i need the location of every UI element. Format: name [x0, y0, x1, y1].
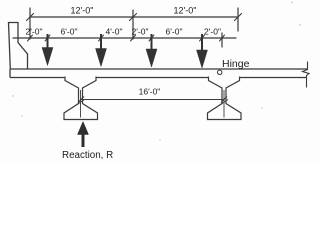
- svg-text:6'-0": 6'-0": [166, 27, 183, 37]
- girder G1 centerline: [80, 90, 82, 118]
- beam top edge: [10, 68, 308, 70]
- beam right break symbol: [303, 62, 310, 88]
- tick level2 x47.5: [45, 35, 50, 41]
- load arrow P3 head: [146, 49, 157, 67]
- svg-text:12'-0": 12'-0": [174, 6, 197, 16]
- extension line right x238: [237, 8, 239, 31]
- svg-text:6'-0": 6'-0": [61, 27, 78, 37]
- svg-text:Reaction, R: Reaction, R: [62, 150, 113, 161]
- tick level1 left: [27, 14, 34, 21]
- dimension line level2: [13, 37, 236, 39]
- hinge symbol circle: [218, 70, 222, 74]
- tick level2 x151.5: [149, 35, 154, 41]
- reaction arrow head: [78, 122, 89, 135]
- tick level1 middle: [130, 14, 137, 21]
- load arrow P2 shaft: [100, 34, 102, 50]
- tick level2 x30: [28, 35, 33, 41]
- girder G2 web break: [221, 100, 229, 105]
- dimension line 16 ft: [81, 99, 224, 101]
- load arrow P4 shaft: [201, 34, 203, 51]
- dimension line level1: [30, 16, 238, 18]
- load arrow P2 head: [96, 49, 107, 67]
- tick level2 x222: [220, 35, 225, 41]
- girder G2 cross-section: [208, 77, 242, 120]
- load arrow P4 head: [197, 50, 208, 68]
- load arrow P3 shaft: [151, 34, 153, 51]
- svg-text:2'-0": 2'-0": [132, 27, 149, 37]
- left end wall outline: [9, 23, 28, 70]
- svg-text:16'-0": 16'-0": [139, 87, 161, 97]
- girder G1 cross-section: [64, 77, 98, 120]
- load arrow P1 head: [42, 48, 53, 66]
- svg-text:12'-0": 12'-0": [71, 6, 94, 16]
- girder G2 centerline: [223, 90, 225, 118]
- tick 16ft left: [78, 97, 84, 103]
- beam left end cap: [9, 69, 11, 78]
- extension line hinge x222: [221, 33, 223, 47]
- beam bottom edge: [10, 77, 307, 79]
- tick 16ft right: [221, 97, 227, 103]
- tick level2 x101: [99, 35, 104, 41]
- svg-text:2'-0": 2'-0": [204, 27, 221, 37]
- girder G1 web break: [77, 100, 85, 105]
- extension line middle x133: [132, 10, 134, 39]
- reaction arrow shaft: [82, 133, 85, 147]
- extension line left x30: [29, 8, 31, 39]
- scan speckles: [12, 2, 301, 141]
- load arrow P1 shaft: [47, 34, 49, 49]
- svg-text:Hinge: Hinge: [222, 58, 250, 70]
- tick level2 x202: [200, 35, 205, 41]
- tick level2 x133: [131, 35, 136, 41]
- svg-text:2'-0": 2'-0": [26, 27, 43, 37]
- tick level1 right: [235, 14, 242, 21]
- svg-text:4'-0": 4'-0": [106, 27, 123, 37]
